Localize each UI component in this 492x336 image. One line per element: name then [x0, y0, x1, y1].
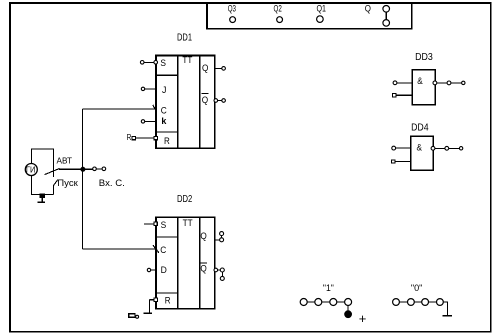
svg-text:DD1: DD1 [177, 32, 192, 43]
wire 1-1 to 1-2 [307, 301, 315, 303]
wire 1-2 to 1-3 [322, 301, 330, 303]
wire 0-2 to 0-3 [414, 301, 421, 303]
terminal strip "0" socket 2 [408, 299, 415, 306]
gate DD4 body [411, 136, 434, 170]
terminal strip "1" socket 4 [345, 299, 352, 306]
ground bar at DD2 R [144, 312, 153, 314]
svg-text:R: R [164, 136, 170, 146]
DD1 output Q wire and terminal [216, 67, 226, 71]
terminal strip "0" socket 3 [422, 299, 429, 306]
svg-text:TT: TT [182, 55, 192, 66]
terminal strip "1" socket 3 [330, 299, 337, 306]
svg-text:Q: Q [200, 264, 206, 274]
svg-text:D: D [161, 265, 168, 275]
svg-text:"1": "1" [323, 283, 334, 293]
pulse generator G1 circle [25, 164, 37, 176]
DD3 output terminals and wire [433, 81, 465, 85]
socket Q2 [277, 17, 283, 23]
DD2 output Q-bar wire and socket pair [214, 268, 224, 280]
svg-text:R: R [127, 133, 132, 142]
connector symbol with 0 subscript [129, 314, 139, 319]
svg-text:C: C [161, 105, 167, 115]
svg-text:Вх. С.: Вх. С. [99, 178, 125, 188]
DD2 S row line [156, 236, 178, 238]
svg-text:&: & [417, 143, 423, 153]
DD2 divider 1 [177, 217, 179, 308]
ground stub [41, 198, 43, 202]
svg-text:Пуск: Пуск [57, 178, 78, 188]
DD1 output Q-bar wire and terminals [214, 99, 225, 103]
svg-text:Q3: Q3 [228, 3, 236, 13]
terminal strip "1" socket 2 [315, 299, 322, 306]
wire between Vh.S terminals [96, 168, 102, 170]
switch blade SA1 [45, 168, 60, 174]
svg-text:Q1: Q1 [317, 3, 327, 13]
junction square on ground wire [40, 194, 44, 198]
DD1 input J terminal and wire [141, 87, 156, 90]
wire to plus pin [347, 306, 349, 311]
svg-text:R: R [165, 296, 171, 306]
DD4 input 2 terminal and wire [392, 160, 411, 163]
svg-text:"0": "0" [411, 283, 423, 293]
plus supply pin (filled) [345, 311, 352, 318]
socket Q1 [317, 16, 324, 23]
svg-text:Q: Q [365, 3, 371, 13]
switch contact Pusk stub [52, 186, 54, 195]
DD2 input C wire [83, 248, 157, 250]
junction node dot [81, 167, 85, 171]
connector box X1 (top) [206, 2, 413, 30]
socket Q3 [230, 17, 236, 23]
DD2 input R terminal and wire [149, 298, 157, 313]
DD1 input C wire [83, 108, 157, 110]
svg-text:Q: Q [202, 95, 208, 105]
wire switch common to node [59, 168, 84, 170]
DD3 input 1 terminal and wire [393, 81, 412, 85]
DD4 input 1 terminal and wire [392, 146, 411, 150]
DD2 input D terminal and wire [147, 268, 156, 271]
svg-text:S: S [161, 220, 167, 230]
DD2 pin label Q-bar [200, 263, 207, 273]
DD1 divider 2 [199, 56, 201, 149]
DD2 C dynamic-input mark [153, 245, 159, 253]
svg-text:C: C [160, 245, 166, 255]
svg-text:J: J [162, 85, 166, 95]
svg-text:Q: Q [200, 231, 206, 241]
terminal strip "0" socket 1 [393, 299, 400, 306]
gate DD3 body [412, 70, 435, 105]
socket pair Q [383, 6, 390, 27]
clock bus vertical wire [82, 109, 84, 249]
wire strip 0 to ground [443, 302, 447, 315]
wire to Vh.S terminals [85, 168, 93, 170]
DD4 output terminals and wire [431, 146, 463, 150]
DD1 input K terminal and wire [141, 120, 156, 123]
terminal strip "0" socket 4 [437, 299, 444, 306]
DD1 C dynamic-input mark [153, 105, 157, 112]
svg-text:TT: TT [183, 218, 193, 229]
wire 0-1 to 0-2 [399, 301, 407, 303]
ground bar strip 0 [443, 315, 452, 317]
svg-text:АВТ: АВТ [57, 157, 73, 166]
wire 1-3 to 1-4 [337, 301, 345, 303]
DD2 input S wire and terminal [144, 222, 157, 225]
DD1 input R terminal and wire [132, 136, 157, 139]
DD1 R row line [156, 131, 178, 133]
DD1 input S terminal and wire [140, 61, 157, 65]
svg-text:+: + [359, 311, 367, 326]
terminal Vh.S b [102, 167, 106, 171]
svg-text:Q2: Q2 [274, 3, 282, 13]
flip-flop DD1 body [156, 56, 215, 149]
wire from generator top to switch contact AVT [31, 149, 53, 177]
terminal Vh.S a [93, 167, 97, 171]
DD1 pin label Q-bar [202, 94, 209, 106]
DD1 divider 1 [177, 56, 179, 149]
svg-text:&: & [417, 76, 423, 86]
svg-text:ГИ: ГИ [26, 165, 36, 174]
wire from generator bottom to Pusk contact [31, 175, 53, 194]
wire 0-3 to 0-4 [429, 301, 437, 303]
terminal strip "1" socket 1 [300, 299, 307, 306]
svg-text:DD3: DD3 [415, 52, 433, 63]
svg-text:S: S [160, 58, 166, 68]
DD2 R row line [156, 292, 178, 294]
flip-flop DD2 body [156, 217, 215, 308]
DD2 divider 2 [199, 217, 201, 308]
svg-text:DD4: DD4 [411, 123, 429, 134]
DD3 input 2 terminal and wire [393, 94, 413, 97]
DD1 S row line [156, 74, 178, 76]
svg-text:DD2: DD2 [177, 194, 193, 205]
switch contact Pusk slash [53, 180, 58, 186]
DD2 output Q wire and socket pair [216, 232, 224, 242]
ground bar [38, 201, 45, 203]
svg-text:Q: Q [202, 63, 208, 73]
